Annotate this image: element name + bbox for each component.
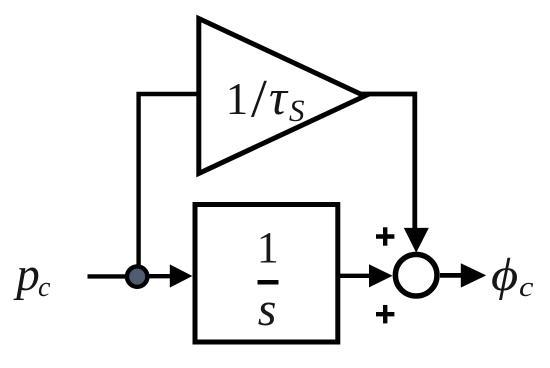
- wire integrator to summing junction: [340, 274, 372, 278]
- op-amp gain triangle: [199, 19, 365, 174]
- wire input from p_c to branch node: [88, 274, 141, 278]
- integrator label 1/s: [257, 223, 279, 336]
- svg-text:ϕ: ϕ: [491, 249, 518, 301]
- svg-text:S: S: [289, 93, 305, 128]
- wire amplifier output to summing junction: [361, 94, 415, 230]
- node (branch point): [127, 266, 147, 286]
- svg-text:/: /: [251, 69, 267, 129]
- arrowhead down into summing junction: [404, 228, 429, 253]
- arrowhead into integrator: [170, 264, 193, 287]
- output arrowhead: [461, 263, 486, 287]
- svg-text:1: 1: [226, 74, 249, 124]
- svg-text:c: c: [519, 272, 534, 303]
- plus sign top: [376, 227, 394, 245]
- svg-text:1: 1: [257, 223, 279, 272]
- wire branch up and across to amplifier: [139, 94, 198, 270]
- integrator block: [195, 205, 338, 343]
- arrowhead into summing junction: [369, 264, 393, 287]
- svg-text:p: p: [13, 248, 39, 301]
- wire branch node to integrator: [140, 274, 174, 278]
- gain label 1/tau_S: [226, 69, 305, 129]
- plus sign bottom: [376, 305, 394, 323]
- summing junction circle: [395, 254, 437, 296]
- svg-text:c: c: [38, 272, 51, 303]
- wire summing junction to output: [440, 273, 464, 278]
- svg-text:s: s: [258, 283, 277, 336]
- output label phi_c: [491, 249, 534, 303]
- input label p_c: [13, 248, 51, 303]
- svg-text:τ: τ: [269, 69, 289, 125]
